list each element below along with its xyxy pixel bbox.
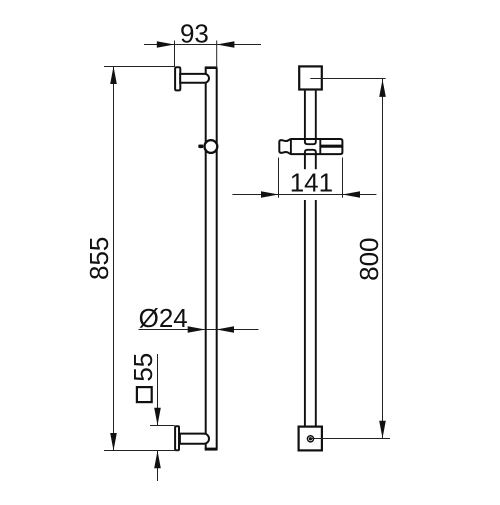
rail collar top notch bbox=[305, 139, 316, 144]
dim 55 line lower bbox=[157, 451, 159, 481]
square symbol for 55 bbox=[137, 387, 152, 402]
slider ring side view bbox=[205, 140, 218, 153]
svg-text:855: 855 bbox=[84, 237, 114, 280]
svg-text:93: 93 bbox=[180, 19, 209, 49]
top square escutcheon bbox=[299, 66, 322, 89]
top bracket arm bbox=[180, 74, 209, 83]
rail top end cap bbox=[205, 66, 218, 69]
arrow 55 down bbox=[154, 408, 161, 426]
svg-text:800: 800 bbox=[354, 238, 384, 281]
arrow 800 top bbox=[379, 79, 386, 97]
slider holder divider bbox=[319, 139, 321, 154]
rail front view bbox=[305, 91, 316, 427]
slider body outline bbox=[279, 139, 342, 154]
dim 800 top reference line bbox=[310, 78, 385, 80]
arrow 93 left bbox=[157, 41, 175, 48]
arrow 855 bottom bbox=[110, 433, 117, 451]
arrow 141 right bbox=[342, 191, 360, 198]
dim 800 bottom reference line bbox=[311, 438, 391, 440]
top wall flange bbox=[175, 67, 180, 90]
dim 93 extension right bbox=[216, 41, 218, 68]
dim 141 line bbox=[232, 194, 376, 196]
dim 93 extension left bbox=[174, 41, 176, 67]
arrow 141 left bbox=[261, 191, 279, 198]
dim 141 extension right bbox=[342, 158, 344, 198]
dim 55 extension top bbox=[150, 425, 175, 427]
rail bottom end cap bbox=[205, 448, 218, 451]
slider grip divider bbox=[290, 139, 292, 154]
rail collar bottom notch bbox=[305, 150, 316, 154]
arrow 800 bottom bbox=[379, 421, 386, 439]
bottom wall flange bbox=[175, 426, 179, 450]
bottom square escutcheon bbox=[299, 427, 322, 451]
slider knob side view bbox=[198, 145, 203, 149]
svg-text:55: 55 bbox=[128, 353, 158, 382]
arrow d24 left bbox=[188, 326, 206, 333]
holder slot band bbox=[320, 145, 342, 148]
dim 800 line bbox=[382, 79, 384, 439]
arrow d24 right bbox=[216, 326, 234, 333]
svg-text:141: 141 bbox=[290, 168, 333, 198]
arrow 855 top bbox=[110, 66, 117, 84]
arrow 93 right bbox=[217, 41, 235, 48]
dim 141 extension left bbox=[278, 158, 280, 198]
dim 855 extension top bbox=[104, 66, 175, 68]
bottom bracket arm bbox=[180, 434, 209, 444]
rail tube side view bbox=[206, 68, 217, 450]
svg-text:Ø24: Ø24 bbox=[139, 303, 188, 333]
screw dot bbox=[309, 437, 313, 441]
dim diameter 24 line bbox=[139, 329, 259, 331]
dim 855 line bbox=[113, 67, 115, 451]
screw ring bbox=[307, 435, 315, 443]
arrow 55 up bbox=[154, 451, 161, 469]
dim 93 line bbox=[144, 44, 261, 46]
dim 55 line upper bbox=[157, 354, 159, 425]
dim 855/55 extension bottom bbox=[104, 450, 178, 452]
